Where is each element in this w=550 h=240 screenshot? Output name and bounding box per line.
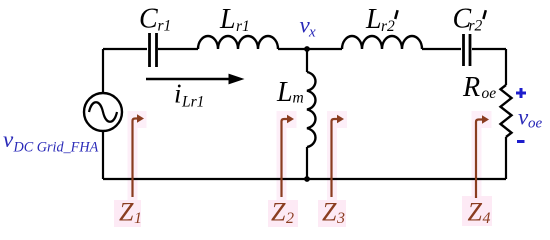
svg-text:i: i <box>174 79 182 109</box>
current arrow iLr1 <box>146 74 245 85</box>
label iLr1 <box>174 79 204 111</box>
wire Cr2 to right corner <box>472 48 506 50</box>
svg-text:r1: r1 <box>236 18 250 35</box>
impedance arrow Z2 <box>282 115 295 197</box>
svg-text:m: m <box>293 90 304 107</box>
highlight band Z1 <box>114 111 147 227</box>
wire vx to Lm <box>306 49 308 72</box>
label Lr1 <box>219 4 250 35</box>
wire cap to Lr1 <box>158 48 198 50</box>
svg-text:4: 4 <box>483 210 491 227</box>
svg-text:oe: oe <box>482 85 497 102</box>
AC source circle <box>84 93 122 131</box>
minus sign <box>517 140 525 143</box>
label Lm <box>276 77 304 108</box>
highlight band Z4 <box>462 111 492 226</box>
label vx <box>300 13 317 41</box>
svg-text:Z: Z <box>119 198 134 227</box>
wire right vertical top <box>505 49 507 85</box>
svg-text:L: L <box>219 4 236 35</box>
label Roe <box>462 72 496 103</box>
label Cr1 <box>139 4 171 35</box>
impedance arrow Z3 <box>332 115 345 197</box>
svg-text:DC Grid_FHA: DC Grid_FHA <box>13 140 99 156</box>
wire bottom <box>103 178 506 180</box>
svg-text:1: 1 <box>134 210 142 227</box>
svg-text:Z: Z <box>322 198 337 227</box>
svg-text:x: x <box>308 25 316 41</box>
inductor Lm <box>307 72 315 147</box>
label Z2 <box>271 198 294 228</box>
svg-text:v: v <box>3 127 14 152</box>
svg-text:2: 2 <box>286 210 294 227</box>
wire top-left segment <box>103 48 147 50</box>
wire Lm to bottom <box>306 147 308 179</box>
label Z3 <box>322 198 345 228</box>
highlight band Z3 <box>318 111 347 227</box>
wire Lr2 to Cr2 <box>422 48 461 50</box>
svg-text:C: C <box>139 4 158 35</box>
label voe <box>518 105 543 132</box>
label Cr2' <box>453 4 486 35</box>
wire right vertical bottom <box>505 137 507 179</box>
svg-text:r1: r1 <box>158 18 172 35</box>
label vDC Grid_FHA <box>3 127 99 156</box>
wire left vertical bottom <box>102 131 104 179</box>
AC source sine <box>89 102 117 122</box>
svg-text:Lr1: Lr1 <box>181 94 204 111</box>
svg-text:L: L <box>276 77 293 108</box>
plus sign <box>516 88 526 98</box>
label Z1 <box>119 198 142 228</box>
impedance arrow Z4 <box>476 115 489 198</box>
svg-text:oe: oe <box>528 116 543 132</box>
node vx junction dot <box>304 46 310 52</box>
impedance arrow Z1 <box>133 114 145 197</box>
svg-text:Z: Z <box>271 198 286 227</box>
svg-text:L: L <box>365 4 382 35</box>
svg-text:R: R <box>462 72 480 103</box>
capacitor Cr2' <box>464 34 471 66</box>
wire left vertical top <box>102 49 104 93</box>
resistor Roe zigzag <box>501 85 512 137</box>
svg-text:3: 3 <box>336 210 345 227</box>
svg-text:r2: r2 <box>381 18 395 35</box>
label Lr2' <box>365 4 398 35</box>
svg-text:Z: Z <box>468 198 483 227</box>
inductor Lr1 <box>198 36 278 49</box>
inductor Lr2' <box>342 36 422 49</box>
capacitor Cr1 <box>150 33 157 67</box>
node bottom junction dot <box>304 176 310 182</box>
highlight band Z2 <box>268 111 298 227</box>
wire Lr1 to Lr2 through node vx <box>278 48 342 50</box>
label Z4 <box>468 198 491 228</box>
svg-text:r2: r2 <box>469 18 483 35</box>
